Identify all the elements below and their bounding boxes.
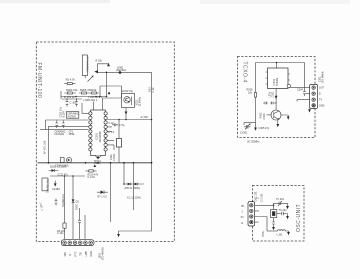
svg-text:A55 22 (S841): A55 22 (S841) <box>125 187 141 190</box>
main bus y162.8 <box>38 162 153 164</box>
crystal X201 <box>271 210 280 218</box>
capacitor C201b <box>279 209 288 215</box>
wire x73 drop <box>72 176 74 239</box>
potentiometer wiper <box>85 76 93 82</box>
svg-text:R 103 1k: R 103 1k <box>64 95 75 99</box>
wire y176 <box>50 175 85 177</box>
capacitor C206 <box>62 121 65 129</box>
Q301 collector out arrow <box>281 115 290 120</box>
svg-text:R1k: R1k <box>92 88 97 92</box>
vertical text C201 <box>60 106 66 117</box>
PW SW ADJ label box <box>42 178 49 194</box>
capacitor C202 <box>66 99 78 107</box>
capacitor C216 <box>55 199 58 206</box>
wire left loop <box>48 126 50 163</box>
svg-text:DISC: DISC <box>75 204 79 210</box>
wire left rail x61 <box>60 91 62 99</box>
label ceramic filter pair <box>55 131 75 137</box>
wire cap top bus <box>62 98 82 99</box>
svg-text:OUT: OUT <box>319 87 325 90</box>
svg-text:A 1.12 (S04): A 1.12 (S04) <box>127 196 141 199</box>
capacitor C303 pair <box>263 102 277 105</box>
svg-text:GND: GND <box>89 251 93 257</box>
capacitor C304 <box>297 63 306 97</box>
OSC vertical label left <box>255 191 258 202</box>
wire y129.6 <box>40 129 89 131</box>
svg-text:C 22: C 22 <box>109 122 115 125</box>
svg-text:C302: C302 <box>272 91 275 97</box>
rail labels <box>148 86 154 92</box>
svg-text:C218A: C218A <box>52 187 60 191</box>
resistor R206 <box>89 88 99 94</box>
node blob right of row B <box>108 92 110 94</box>
svg-text:R205 47k: R205 47k <box>80 88 92 92</box>
svg-text:R2 4.7k: R2 4.7k <box>66 78 76 82</box>
svg-text:A (7M): A (7M) <box>141 116 148 119</box>
wire y86 to module <box>99 86 121 97</box>
oscillator module box Q202 <box>122 94 135 108</box>
J201 pin labels <box>63 251 93 257</box>
wire x64.5 drop <box>64 176 66 239</box>
diode D202 <box>97 190 108 198</box>
svg-text:X'TAL: X'TAL <box>262 230 265 237</box>
wire y126.3 <box>49 125 89 127</box>
TCXO IC301 <box>266 63 291 89</box>
capacitor below crystal <box>272 218 275 231</box>
connector J301 <box>310 84 318 108</box>
wire x79.5 x85 drops <box>80 208 86 239</box>
scan smudge top edge <box>0 0 110 3</box>
wire bus y96.5 <box>61 96 107 98</box>
diode D203 pair <box>123 183 144 186</box>
resistor R215 <box>86 164 99 179</box>
svg-text:TB: TB <box>79 252 83 256</box>
svg-text:C 0.001: C 0.001 <box>261 193 264 202</box>
ground arrow left <box>52 181 60 192</box>
svg-text:(LEVEL): (LEVEL) <box>116 68 126 72</box>
svg-text:R204 10k: R204 10k <box>66 88 78 92</box>
coil L201 <box>267 230 290 237</box>
TCXO left rail <box>255 63 257 123</box>
svg-text:TV: TV <box>319 99 322 102</box>
RF GAIN ADJ label box <box>82 55 88 76</box>
svg-text:TCXO-4: TCXO-4 <box>242 62 248 83</box>
resistor R216 <box>57 223 66 235</box>
svg-text:CV301: CV301 <box>240 132 248 135</box>
svg-text:D2: D2 <box>76 199 80 203</box>
vertical text XTAL <box>262 230 265 237</box>
TCXO top wire <box>256 62 305 64</box>
svg-text:(TO MAIN): (TO MAIN) <box>322 71 325 83</box>
svg-text:C 10u: C 10u <box>57 232 64 235</box>
svg-text:TC 202: TC 202 <box>279 209 288 212</box>
resistor R204 <box>64 88 78 94</box>
test point TP201 <box>94 157 102 166</box>
svg-text:J A08 201 1: J A08 201 1 <box>83 98 98 102</box>
svg-text:R 10k: R 10k <box>96 60 103 63</box>
arrow to J201 <box>117 231 120 237</box>
wire pin1 <box>255 203 275 209</box>
wire pin3 <box>255 217 267 232</box>
svg-text:455E: 455E <box>69 133 75 136</box>
arrow below module <box>125 108 128 121</box>
capacitor C205 <box>55 121 58 129</box>
pin stub labels right <box>107 122 115 134</box>
wire right vertical rail <box>119 72 152 231</box>
J201 side label <box>97 247 104 260</box>
resistor R301 <box>247 88 257 98</box>
svg-text:AF VOL 10k: AF VOL 10k <box>44 140 47 154</box>
svg-text:C 0.01: C 0.01 <box>88 176 96 179</box>
TCXO dashed border <box>238 57 316 138</box>
trimmer CV301 <box>240 123 251 134</box>
junction diamond on line <box>118 71 121 74</box>
OSC unit dashed border <box>253 186 305 242</box>
left diode row <box>49 165 69 177</box>
filter CF201 <box>110 119 122 163</box>
resistor R205 <box>79 88 92 94</box>
wire y120 <box>46 120 89 130</box>
svg-text:IC201: IC201 <box>94 133 98 140</box>
ground C201b <box>286 214 289 220</box>
capacitor C217 <box>78 218 81 225</box>
svg-text:C303: C303 <box>263 113 266 119</box>
IC201 pins left <box>89 112 92 151</box>
capacitor C214 <box>112 123 125 127</box>
wire top bus y98 <box>103 94 122 99</box>
connector J1 <box>248 202 255 226</box>
IC201 body <box>91 110 106 158</box>
ground CV <box>244 123 257 131</box>
wires to J301 <box>291 88 311 113</box>
svg-text:GND: GND <box>319 104 325 107</box>
resistor R201 <box>64 78 75 85</box>
svg-text:RF GAIN ADJ: RF GAIN ADJ <box>85 57 88 73</box>
IC out vertical with arrow <box>269 89 278 111</box>
wire x109/110.5 drop <box>110 163 112 222</box>
ground Q301 emitter <box>276 120 279 128</box>
component VR bottom <box>55 157 72 167</box>
svg-text:PW SW ADJ: PW SW ADJ <box>46 180 49 194</box>
trimmer TC201 <box>274 198 288 206</box>
IC201 pins right <box>104 112 107 151</box>
svg-text:B 25V: B 25V <box>62 110 65 117</box>
node arrow up <box>96 60 110 73</box>
wire stub x106.5 <box>106 72 108 98</box>
J301 pin labels <box>319 87 325 108</box>
svg-text:R? 1 0.5: R? 1 0.5 <box>98 196 108 199</box>
diode labels <box>125 187 141 200</box>
svg-text:C 1k: C 1k <box>152 87 155 93</box>
label row top <box>64 95 103 99</box>
wire pin2 pin4 <box>255 211 259 222</box>
label LINE LEVEL <box>116 65 126 72</box>
svg-text:D201 1S1588: D201 1S1588 <box>50 165 67 169</box>
svg-text:E: E <box>68 254 72 256</box>
svg-text:C304: C304 <box>297 89 303 92</box>
svg-text:SQUELCH: SQUELCH <box>61 194 65 207</box>
wire line-level horizontal <box>98 71 152 73</box>
ground TC201 <box>286 203 289 209</box>
osc module side label <box>136 96 142 107</box>
wire y119.5 <box>107 116 152 120</box>
J301 top label <box>319 71 325 83</box>
svg-text:L 201: L 201 <box>277 234 284 237</box>
wire pin1 left <box>82 103 89 113</box>
svg-text:13.8V (S): 13.8V (S) <box>122 89 133 93</box>
svg-text:CF201: CF201 <box>113 153 116 161</box>
svg-text:MIC: MIC <box>63 252 67 257</box>
diode on x73 <box>72 199 80 203</box>
svg-text:455E: 455E <box>110 154 113 160</box>
FM unit dashed border <box>36 42 174 242</box>
IC201 top wires <box>83 98 103 110</box>
wire x124 drop <box>123 163 125 184</box>
svg-text:OSC-UNIT: OSC-UNIT <box>296 204 302 232</box>
Q301 base text <box>260 112 272 119</box>
svg-text:+MB: +MB <box>84 251 88 257</box>
svg-text:12.8MHz: 12.8MHz <box>139 96 142 107</box>
svg-text:MC3359P: MC3359P <box>98 131 102 143</box>
transistor Q301 <box>271 110 281 120</box>
wire x133.5 drop <box>133 163 135 210</box>
svg-text:(TO MAIN): (TO MAIN) <box>101 247 105 260</box>
svg-text:C305 47p: C305 47p <box>259 127 270 130</box>
svg-text:TC5081: TC5081 <box>276 77 279 86</box>
filter box F201 <box>66 112 79 119</box>
arrow left on line <box>94 70 98 73</box>
svg-text:PTT: PTT <box>73 251 77 256</box>
svg-text:C 5p: C 5p <box>119 123 125 127</box>
capacitor C203 <box>75 99 78 107</box>
pin stub y1445 <box>107 140 114 150</box>
svg-text:TC 201: TC 201 <box>276 198 285 201</box>
svg-text:30.720MHz: 30.720MHz <box>247 141 260 144</box>
svg-text:FM-UNIT-100: FM-UNIT-100 <box>36 63 42 99</box>
svg-text:FILTER: FILTER <box>68 115 76 118</box>
connector J201 <box>61 240 94 246</box>
J1 pin labels <box>241 205 246 225</box>
svg-text:FILTER1: FILTER1 <box>55 133 65 136</box>
